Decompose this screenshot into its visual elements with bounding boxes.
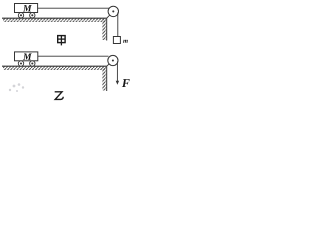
label m [123,40,128,43]
pulley (top) [108,6,118,16]
wheel (top cart, right) [30,13,35,18]
wheel (bottom cart, left) [18,61,23,66]
wheel (bottom cart, right) [30,61,35,66]
table edge wall hatching (top) [102,19,106,40]
cart body M (top) [15,4,38,13]
label M (bottom cart) [23,53,32,59]
table surface line (bottom) [2,65,107,67]
pulley bracket (bottom) [107,61,113,67]
pulley bracket (top) [107,11,114,18]
label jia (甲) drawn as strokes [58,36,65,46]
wire: string from cart to pulley (bottom) [38,55,109,57]
wire: hanging string (top) [117,13,119,37]
ground hatching (bottom table surface) [3,67,106,70]
label F [122,79,130,87]
pulley (bottom) [108,55,118,65]
wheel (top cart, left) [18,13,23,18]
wire: string from cart to pulley (top) [38,7,109,9]
table edge wall hatching (bottom) [102,67,106,91]
label yi (乙) drawn as strokes [55,92,64,100]
force arrow F (down) [116,62,118,83]
table edge wall line (bottom) [106,66,108,91]
table surface line (top) [2,17,107,19]
weight block m [113,37,120,44]
cart body M (bottom) [15,52,38,61]
table edge wall line (top) [106,18,108,40]
faint watermark speckles [9,83,24,92]
label M (top cart) [23,5,32,11]
ground hatching (top table surface) [3,19,106,22]
